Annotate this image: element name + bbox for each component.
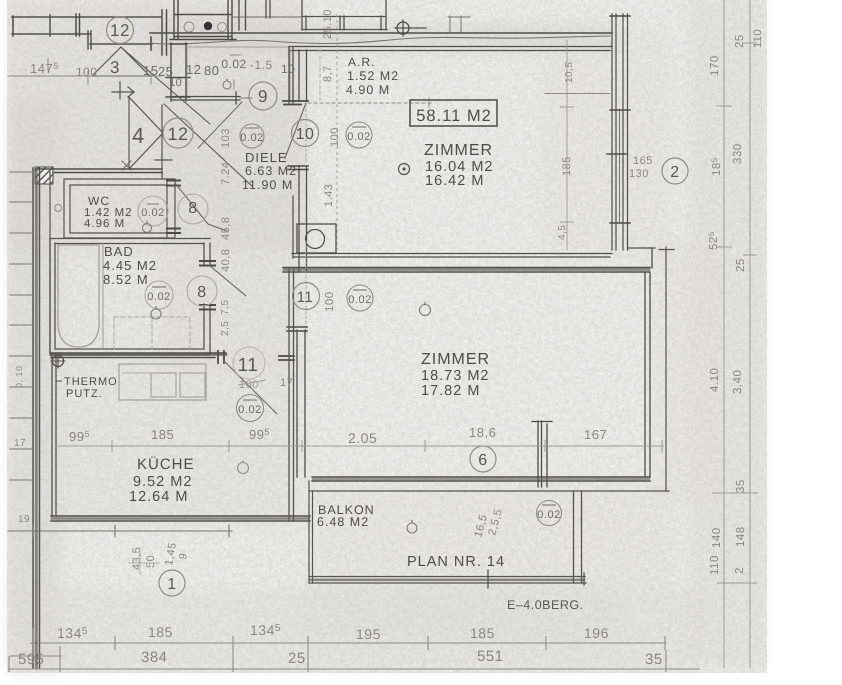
svg-text:0.02: 0.02 [141,207,164,219]
svg-text:50: 50 [145,555,157,568]
washbasin dashed outline [114,317,190,349]
svg-text:PUTZ.: PUTZ. [66,388,103,400]
svg-text:40,8: 40,8 [220,249,232,272]
wall dark band BAD-KUECHE [51,353,226,356]
svg-text:0.02: 0.02 [221,57,246,71]
svg-text:4: 4 [132,123,145,148]
svg-text:110: 110 [709,555,721,575]
WC door jamb [167,181,180,234]
svg-text:148: 148 [735,526,747,547]
svg-text:384: 384 [141,649,168,666]
kitchen counter [119,364,206,400]
node circle 10 [292,120,319,147]
window box1 frame [170,0,236,40]
left inner wall [49,172,51,352]
svg-text:18,6: 18,6 [469,425,496,440]
survey point symbol top [397,22,409,34]
entry wall line to circle9 [172,92,240,104]
wall dark band between zimmers [284,268,649,270]
stair tread dashes [10,172,32,480]
survey point at KUECHE corner [53,356,64,367]
left exterior wall double [33,168,40,668]
svg-text:3,40: 3,40 [732,370,744,394]
svg-text:ZIMMER: ZIMMER [424,142,493,159]
svg-text:0.02: 0.02 [537,509,560,521]
svg-text:1.52 M2: 1.52 M2 [347,69,399,83]
svg-text:15: 15 [143,63,158,78]
svg-text:165: 165 [633,155,653,167]
wall above WC [36,169,162,173]
svg-text:8: 8 [188,200,197,217]
wall tick x151 [150,37,152,50]
outer east wall top tick [659,249,674,251]
svg-text:170: 170 [709,55,721,76]
jamb tick y329 [287,327,307,331]
outlet symbol left [55,205,62,212]
svg-text:8,7: 8,7 [322,65,334,82]
svg-text:2.05: 2.05 [348,430,377,446]
svg-text:185: 185 [470,625,495,641]
svg-text:130: 130 [629,168,649,180]
svg-text:110: 110 [752,29,764,48]
bottom base line [8,646,700,672]
svg-text:167: 167 [584,427,607,442]
svg-text:100: 100 [76,65,98,79]
right dim line 2 [749,0,751,668]
faint partition line AR door [319,50,321,100]
svg-text:6.48 M2: 6.48 M2 [317,515,369,529]
node circle 9 [249,82,277,110]
zimmer bottom wall dark [313,478,649,480]
svg-text:100: 100 [239,379,259,391]
entry door swing [198,102,242,148]
node circle 1 [159,570,185,596]
interior dimension chain y446 [55,440,664,452]
wall tick x89 [88,31,91,49]
svg-text:A.R.: A.R. [348,55,375,69]
svg-text:185: 185 [151,427,174,442]
ZIMMER-bottom left wall [297,330,305,477]
lower-left wall line [8,525,232,537]
window band inner line [619,109,621,222]
svg-text:4.45 M2: 4.45 M2 [103,258,157,273]
svg-text:100: 100 [324,291,336,312]
wall tick x50 [49,15,51,36]
ZIMMER-top right wall window band [612,14,628,250]
faint line above window right [545,93,610,95]
wall top-left inner line right [90,43,152,45]
window sill ticks [607,16,630,223]
window box2 frame [302,0,387,30]
svg-text:35: 35 [645,651,663,668]
dashed door axis line [305,241,307,334]
stair diagonal upper [122,48,210,124]
AR bottom wall tick [283,101,308,105]
svg-text:551: 551 [477,648,504,665]
wall dark left exterior [35,170,38,667]
svg-text:10: 10 [296,126,315,143]
svg-text:0.02: 0.02 [347,131,370,143]
marker circle 0.02 BAD [145,281,173,309]
svg-text:1.43: 1.43 [323,184,335,207]
main top wall outer [150,32,612,34]
stair arrow [112,82,134,99]
svg-text:25: 25 [734,34,746,48]
AR dashed dimension line [308,98,432,108]
bathroom partition line [102,244,104,348]
node circle 8 WC [178,194,208,224]
svg-text:100: 100 [329,127,341,147]
bottom dim line [30,628,666,657]
svg-text:12: 12 [167,124,188,144]
hatched wall block [35,167,53,184]
svg-text:4,5: 4,5 [557,225,568,240]
svg-text:8.52 M: 8.52 M [103,272,149,287]
svg-text:7,5: 7,5 [220,300,231,315]
svg-text:10: 10 [169,77,182,89]
bathtub [58,245,99,347]
svg-text:17: 17 [280,377,293,389]
svg-text:10,5: 10,5 [564,62,575,83]
svg-text:6.63 M2: 6.63 M2 [245,164,297,178]
svg-text:4.90 M: 4.90 M [346,83,390,97]
svg-text:35: 35 [735,479,747,493]
svg-text:E–4.0BERG.: E–4.0BERG. [507,598,584,612]
wall end tick x13 [12,16,14,36]
stair triangle 3 [92,47,150,76]
svg-text:PLAN NR. 14: PLAN NR. 14 [407,554,505,570]
window dim line [560,40,574,250]
svg-text:3: 3 [110,58,120,77]
door swing DIELE to ZIMMER top [285,103,306,158]
wall tick x266 [266,0,270,18]
svg-text:185: 185 [148,624,173,640]
svg-text:17: 17 [14,438,26,449]
wall between rooms lower double [283,268,650,273]
svg-text:16.42 M: 16.42 M [425,173,484,189]
jamb tick y166 [288,166,308,170]
outlet symbol zimmer top [399,164,410,175]
node circle 12 stair [163,118,193,148]
svg-text:THERMO: THERMO [64,376,118,388]
dimension line y76 left [8,59,160,84]
ZIMMER-bottom right wall [645,272,650,477]
node circle 2 [662,158,688,184]
svg-text:19: 19 [18,514,30,525]
KUECHE door jamb right [279,356,294,360]
svg-text:DIELE: DIELE [245,150,288,165]
svg-text:9: 9 [258,87,268,106]
svg-text:595: 595 [18,651,45,668]
WC door swing [175,183,227,231]
main top wall inner double [289,47,612,51]
window box1 circle left [184,22,194,32]
svg-text:11.90 M: 11.90 M [242,178,293,192]
marker circle 0.02 balcony [537,501,562,526]
svg-text:4.10: 4.10 [709,368,721,392]
svg-text:2: 2 [670,164,679,181]
svg-text:18.73 M2: 18.73 M2 [421,368,489,384]
svg-text:7.24: 7.24 [220,162,232,185]
door jamb x162 [162,10,167,55]
balcony left edge [309,481,313,583]
svg-text:ZIMMER: ZIMMER [421,351,490,368]
KUECHE door jamb left [218,351,224,363]
area box 58.11 [410,100,497,126]
KUECHE door swing [224,361,277,414]
svg-text:12: 12 [186,62,201,77]
node circle 11 zimmer door [293,283,320,310]
balcony rail dark [310,578,584,581]
room WC box [64,179,175,238]
svg-text:4.96 M: 4.96 M [84,218,125,230]
wire stub right of survey point [411,27,426,29]
window box1 black dot [204,22,212,30]
svg-text:1: 1 [167,576,176,593]
top thin wall line between boxes [232,16,302,18]
wall tick x76 [76,14,80,36]
svg-text:140: 140 [711,527,723,548]
wall tick x239 [239,0,246,30]
svg-text:196: 196 [584,625,609,641]
svg-text:80: 80 [204,63,219,78]
outlet symbol BAD [151,309,161,319]
wall top-left outer line [12,16,161,18]
balcony door jambs [532,421,552,487]
svg-text:43,5: 43,5 [131,547,143,570]
dashed door axis DIELE-ZIMMER top [305,104,307,164]
outer east wall [665,247,667,491]
entry door opening rect [187,47,290,100]
node circle 8 BAD [187,276,217,306]
svg-text:2: 2 [734,567,746,574]
balcony top edge [309,490,669,492]
svg-text:17.82 M: 17.82 M [421,383,480,399]
KUECHE right wall [289,269,294,521]
svg-text:BAD: BAD [104,244,134,259]
svg-text:8: 8 [197,284,206,301]
svg-text:45,8: 45,8 [220,217,232,240]
outlet symbol zimmer bottom [420,305,431,316]
ZIMMER-bottom bottom wall [312,477,650,481]
balcony right divider [574,491,582,583]
svg-text:6: 6 [478,452,487,469]
svg-text:-1.5: -1.5 [250,58,273,72]
outlet tick [233,80,235,89]
stair diagonal lower to DIELE [164,104,252,186]
right dim line 1 [723,0,725,668]
AR left wall upper [289,47,307,103]
stair triangle 4 [129,97,163,169]
svg-text:2,5: 2,5 [220,321,231,336]
svg-text:11: 11 [297,289,314,306]
marker circle 0.02 WC [138,196,168,226]
BAD door jambs [200,261,215,310]
svg-text:25.10: 25.10 [322,9,334,39]
svg-text:KÜCHE: KÜCHE [137,456,195,473]
window box1 circle right [218,23,227,32]
balcony bottom rail [309,570,586,588]
svg-text:330: 330 [732,143,744,164]
svg-text:0.02: 0.02 [147,291,170,303]
outlet symbol stair [223,81,231,89]
marker circle 0.02 diele left [240,124,264,148]
ZIMMER-top left wall lower [299,166,307,271]
marker circle 0.02 kueche [237,395,264,422]
marker circle 0.02 zimmer [347,285,373,311]
dashed vertical dim line AR [336,14,338,250]
svg-text:10: 10 [281,62,295,76]
outlet symbol WC [143,224,152,233]
outlet symbol balcony [407,523,417,533]
kueche bottom wall dark [52,517,309,519]
right dim ticks [712,43,758,583]
svg-text:25: 25 [735,258,747,272]
room BAD walls [50,238,210,355]
node label 11 kueche door [233,347,265,379]
svg-text:0.02: 0.02 [348,294,371,306]
svg-text:25: 25 [288,650,306,667]
shaft box with circle [297,224,336,253]
KUECHE bottom wall [51,516,310,521]
svg-text:58.11 M2: 58.11 M2 [416,107,492,125]
svg-text:WC: WC [88,194,110,208]
wall cross mark [122,161,131,170]
svg-text:9.52 M2: 9.52 M2 [133,474,192,490]
svg-text:0, 10: 0, 10 [14,365,24,388]
svg-text:0.02: 0.02 [240,132,263,144]
marker circle 0.02 diele [346,122,372,148]
node circle 12 top [107,17,134,44]
svg-text:12.64 M: 12.64 M [129,489,188,505]
wall corner to lower room [628,248,655,268]
svg-text:12: 12 [110,21,130,40]
svg-text:11: 11 [238,355,259,376]
svg-text:103: 103 [220,128,232,148]
svg-text:0.02: 0.02 [238,404,261,416]
main top wall scan wave [150,36,610,44]
wall top-left inner line left [12,33,90,35]
small window marks right of box2 [448,16,470,32]
BAD door swing [209,265,246,296]
stair mid vertical [155,105,172,178]
wall between rooms upper line [292,196,612,258]
room KUECHE top wall [51,353,226,358]
svg-text:195: 195 [356,626,381,642]
outlet symbol kueche [238,463,249,474]
entry wall jamb box [166,43,190,101]
node circle 6 [470,446,496,472]
KUECHE left wall [52,353,56,516]
